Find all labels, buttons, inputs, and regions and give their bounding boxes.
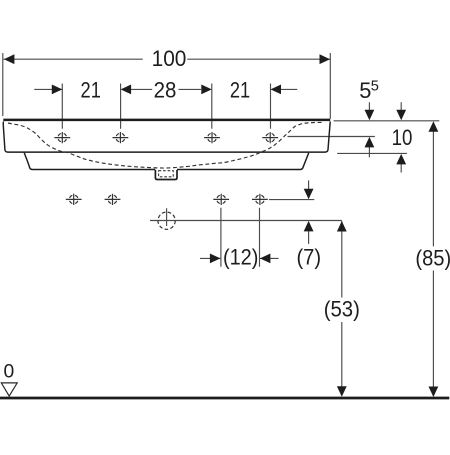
svg-text:(7): (7) [296, 244, 321, 269]
svg-text:(12): (12) [223, 244, 259, 269]
svg-text:21: 21 [81, 78, 101, 103]
svg-text:0: 0 [4, 361, 15, 382]
svg-text:21: 21 [230, 78, 250, 103]
svg-text:(85): (85) [415, 245, 450, 270]
svg-text:10: 10 [392, 125, 413, 150]
svg-text:(53): (53) [324, 297, 360, 322]
svg-text:100: 100 [152, 46, 187, 71]
svg-text:5: 5 [359, 78, 371, 103]
svg-text:28: 28 [154, 78, 177, 103]
svg-text:5: 5 [371, 79, 379, 95]
